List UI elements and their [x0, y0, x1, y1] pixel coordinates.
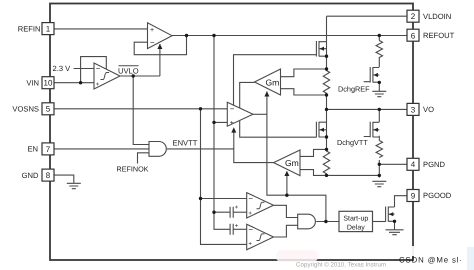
wire Gm1 sense bracket bottom	[281, 89, 327, 95]
wire buffer output down to error amp + input	[214, 36, 227, 123]
wire DchgREF source to ground	[378, 82, 380, 91]
svg-text:GND: GND	[22, 171, 39, 180]
hysteresis symbol comparator B	[257, 234, 265, 241]
svg-text:ENVTT: ENVTT	[173, 139, 198, 148]
node Q2 source	[325, 135, 328, 138]
node VO rail	[325, 108, 328, 111]
svg-text:+: +	[248, 242, 252, 248]
svg-text:Copyright © 2010, Texas Instru: Copyright © 2010, Texas Instrum	[296, 262, 386, 269]
svg-text:7: 7	[46, 145, 51, 154]
transistor PGOOD open-drain FET	[386, 207, 395, 222]
transistor DchgREF FET	[364, 67, 380, 83]
wire REFOUT gate drive (vertical ends on error amp top slope)	[234, 55, 317, 106]
svg-text:REFOUT: REFOUT	[423, 31, 455, 40]
wire VLDOIN rail upper segment	[326, 16, 328, 69]
svg-text:Gm: Gm	[266, 78, 280, 88]
wire enable bus vertical to PGOOD logic	[267, 92, 326, 222]
svg-text:−: −	[230, 104, 235, 113]
wire buffer feedback loop	[134, 36, 186, 55]
svg-text:+: +	[235, 205, 239, 211]
watermark blur patches	[276, 241, 474, 270]
resistor R-DchgVTT	[376, 141, 382, 158]
node Q1 source	[325, 55, 328, 58]
wire comparator B output to AND gate	[274, 225, 298, 237]
wire VOSNS branch to comparator B + input	[201, 199, 247, 245]
wire PGOOD FET drain to pin 9	[395, 196, 408, 207]
svg-text:Gm: Gm	[285, 158, 299, 168]
resistor R-VO divider	[323, 149, 329, 175]
node enable bus to Gm2	[285, 194, 288, 197]
wire VIN supply loop to UVLO top	[81, 57, 107, 83]
enable arrow into buffer op-amp	[157, 44, 162, 49]
Start-up Delay box	[339, 211, 373, 231]
wire UVLO down to ENVTT AND input	[133, 76, 149, 145]
comparator A triangle	[247, 193, 274, 218]
svg-text:REFINOK: REFINOK	[117, 164, 149, 173]
enable arrow into error amp	[231, 127, 236, 132]
wire AND output to Start-up Delay	[316, 221, 339, 223]
op-amp U1 buffer triangle	[148, 23, 173, 49]
svg-text:CSDN @Me sl·: CSDN @Me sl·	[399, 255, 462, 264]
pin 3 box	[407, 103, 419, 115]
resistor R-REFOUT divider top	[323, 69, 329, 95]
node PGOOD FET source	[393, 220, 396, 223]
svg-text:REFIN: REFIN	[18, 24, 41, 33]
svg-text:DchgVTT: DchgVTT	[337, 138, 368, 147]
svg-text:PGND: PGND	[423, 160, 445, 169]
wire rail segment between resistors	[326, 95, 328, 149]
transistor Q1 REFOUT pass FET	[316, 41, 326, 57]
svg-text:−: −	[150, 38, 155, 47]
transistor Q2 VO pass FET	[316, 122, 326, 138]
node cap A tap	[212, 211, 215, 214]
svg-text:VOSNS: VOSNS	[12, 105, 39, 114]
wire Gm2 sense bracket bottom	[300, 170, 327, 176]
node DchgVTT drain	[378, 108, 381, 111]
node error + tap	[212, 121, 215, 124]
svg-text:4: 4	[411, 160, 416, 169]
wire ENVTT arrow riser into error amp	[233, 132, 235, 149]
node start-up delay input	[324, 220, 327, 223]
wire DchgVTT source to resistor	[378, 136, 380, 141]
wire buffer output / REFOUT line	[172, 35, 407, 37]
wire Start-up Delay to PGOOD FET gate	[373, 221, 386, 223]
wire offset cap A to comparator A + input	[233, 211, 247, 213]
ground symbol PGOOD FET	[386, 230, 404, 235]
node PGND ground	[378, 174, 381, 177]
resistor R-REFOUT pulldown	[376, 41, 382, 58]
wire PGOOD FET source to ground	[394, 221, 396, 229]
svg-text:+: +	[230, 120, 234, 127]
wire DchgREF drain riser	[378, 36, 380, 41]
pin 2 box	[407, 10, 419, 22]
wire VOSNS to error amp - input	[54, 108, 227, 110]
wire error amp output to enable bus	[253, 113, 267, 115]
node divider bottom REF	[325, 93, 328, 96]
wire ENVTT output run	[167, 149, 274, 163]
svg-text:UVLO: UVLO	[118, 67, 139, 76]
svg-text:VIN: VIN	[26, 78, 39, 87]
pin 6 box	[407, 29, 419, 41]
svg-text:1: 1	[46, 25, 51, 34]
AND gate PGOOD	[298, 214, 316, 229]
wire VIN to UVLO + input	[54, 82, 94, 84]
node buffer out branch	[212, 34, 215, 37]
node VOSNS tap	[199, 107, 202, 110]
pin 5 box	[42, 103, 54, 115]
wire 2.3V to UVLO - input	[74, 68, 95, 70]
svg-text:2.3 V: 2.3 V	[53, 64, 72, 73]
wire Gm1 output to VO FET gate	[240, 82, 317, 137]
error amp triangle	[227, 102, 253, 126]
wire Gm1 sense bracket top	[281, 69, 327, 77]
overline for UVLO label	[119, 65, 139, 67]
hysteresis symbol comparator A	[257, 202, 265, 209]
wire REF resistor to DchgREF FET	[378, 57, 380, 67]
svg-text:8: 8	[46, 171, 51, 180]
ground symbol DchgREF	[372, 91, 386, 96]
pin 8 box	[42, 169, 54, 181]
svg-text:3: 3	[411, 105, 416, 114]
node buffer feedback tap	[185, 34, 188, 37]
node UVLO out	[132, 74, 135, 77]
wire down to offset cap B	[214, 212, 230, 229]
wire EN to ENVTT AND gate	[54, 148, 149, 150]
wire VOSNS branch to window comparators	[201, 109, 247, 199]
svg-text:9: 9	[411, 191, 416, 200]
wire divider bottom to PGND ground	[327, 174, 380, 176]
wire UVLO output	[120, 75, 160, 77]
hysteresis symbol UVLO	[101, 73, 110, 80]
AND gate ENVTT	[149, 142, 166, 157]
transistor DchgVTT FET	[364, 122, 380, 138]
wire reference branch to offset caps	[214, 122, 230, 212]
svg-text:VO: VO	[423, 105, 434, 114]
node dots	[79, 34, 396, 223]
wire VO line to pin 3	[327, 108, 408, 110]
pin 10 box	[42, 77, 54, 89]
offset cap A	[230, 207, 233, 218]
svg-text:−: −	[96, 64, 101, 73]
ground symbol PGND node	[372, 181, 386, 186]
outer IC boundary box	[50, 4, 413, 261]
svg-text:Start-up: Start-up	[343, 216, 368, 223]
svg-text:+: +	[248, 211, 252, 217]
node comparator A - tap	[199, 197, 202, 200]
comparator B triangle	[247, 224, 274, 250]
Gm2 amplifier triangle	[274, 150, 300, 176]
enable arrow into Gm2	[284, 171, 289, 176]
svg-text:2: 2	[411, 12, 416, 21]
wire Gm2 sense bracket top	[300, 149, 327, 156]
wire Gm2 arrow riser	[286, 176, 288, 195]
wire VLDOIN line	[327, 15, 408, 17]
node DchgREF source	[378, 81, 381, 84]
enable arrow into Gm1	[264, 91, 269, 96]
wire DchgVTT drain riser	[378, 109, 380, 122]
pin 1 box	[42, 23, 54, 35]
svg-text:EN: EN	[27, 145, 38, 154]
node divider top REF	[325, 67, 328, 70]
svg-text:PGOOD: PGOOD	[423, 191, 452, 200]
pin 4 box	[407, 158, 419, 170]
node divider bottom VO	[325, 174, 328, 177]
wire REFIN to buffer + input	[54, 28, 148, 30]
svg-text:10: 10	[44, 79, 53, 88]
svg-text:6: 6	[411, 31, 416, 40]
wire offset cap B to comparator B - input	[233, 228, 247, 230]
svg-text:+: +	[235, 223, 239, 229]
Gm1 amplifier triangle	[255, 69, 281, 95]
ground symbol at GND pin	[67, 183, 81, 188]
wire rail bottom node	[326, 174, 328, 176]
wire comparator A output to AND gate	[274, 205, 298, 217]
node REFOUT pulldown tap	[378, 34, 381, 37]
svg-text:DchgREF: DchgREF	[338, 84, 370, 93]
svg-text:Delay: Delay	[347, 224, 365, 232]
svg-text:+: +	[150, 27, 154, 34]
offset cap B	[230, 224, 233, 235]
node PGND tap	[378, 163, 381, 166]
node VIN tap	[79, 81, 82, 84]
pin 7 box	[42, 143, 54, 155]
svg-text:−: −	[248, 194, 253, 203]
wire UVLO enable riser into buffer op-amp	[159, 44, 161, 76]
pin 9 box	[407, 190, 419, 202]
svg-text:VLDOIN: VLDOIN	[423, 12, 451, 21]
svg-text:5: 5	[46, 105, 51, 114]
wire REFINOK to ENVTT AND input	[138, 153, 150, 164]
wire DchgVTT resistor to PGND node	[378, 160, 380, 178]
wire GND to ground symbol	[54, 175, 74, 183]
svg-text:+: +	[96, 82, 100, 88]
node divider top VO	[325, 148, 328, 151]
svg-text:−: −	[248, 225, 253, 234]
wire PGND node to pin 4	[379, 163, 407, 165]
comparator UVLO triangle	[94, 63, 120, 89]
